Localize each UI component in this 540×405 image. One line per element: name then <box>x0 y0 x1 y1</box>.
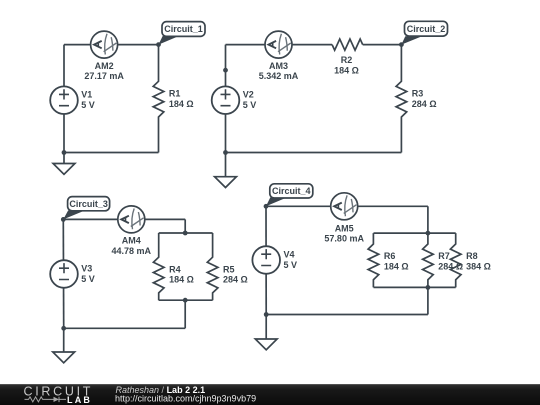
svg-text:44.78 mA: 44.78 mA <box>112 246 152 256</box>
wire C4 top rail <box>374 232 456 234</box>
wire left C4 <box>265 206 267 314</box>
resistor R4 <box>153 233 193 300</box>
svg-text:284 Ω: 284 Ω <box>412 99 437 109</box>
wire C3 right drop <box>184 219 186 233</box>
CircuitLab logo schematic squiggle <box>25 397 67 402</box>
wire bottom C1 <box>64 152 159 154</box>
CircuitLab logo diode <box>54 397 60 402</box>
node dot C3 top-left <box>61 217 66 222</box>
voltage source V2 <box>212 86 257 114</box>
wire C3 bottom drop <box>184 300 186 328</box>
ammeter AM2 <box>84 31 124 81</box>
svg-text:R1: R1 <box>169 88 181 98</box>
node dot C2 left-wire junction <box>223 68 228 73</box>
svg-text:AM5: AM5 <box>335 223 354 233</box>
svg-text:R2: R2 <box>341 55 353 65</box>
node dot C1 top-right <box>156 42 161 47</box>
flag Circuit_3 <box>63 197 109 220</box>
svg-text:184 Ω: 184 Ω <box>169 275 194 285</box>
wire C4 bottom drop <box>427 287 429 314</box>
svg-text:Circuit_3: Circuit_3 <box>69 199 108 209</box>
svg-text:284 Ω: 284 Ω <box>223 275 248 285</box>
node dot C3 bottom-left <box>61 326 66 331</box>
node dot C4 top rail <box>426 231 431 236</box>
svg-text:5 V: 5 V <box>81 100 95 110</box>
svg-text:5 V: 5 V <box>284 260 298 270</box>
flag Circuit_4 <box>266 184 313 207</box>
ground C1 <box>53 153 75 175</box>
resistor R5 <box>207 233 247 300</box>
wire left C3 <box>62 219 64 328</box>
svg-text:384 Ω: 384 Ω <box>466 262 491 272</box>
svg-text:Circuit_1: Circuit_1 <box>164 24 203 34</box>
wire C3 bottom rail <box>159 299 213 301</box>
resistor R7 <box>423 233 463 287</box>
node dot C4 bottom rail <box>426 285 431 290</box>
svg-text:R3: R3 <box>412 88 424 98</box>
svg-text:5.342 mA: 5.342 mA <box>259 71 299 81</box>
svg-text:Circuit_2: Circuit_2 <box>407 24 446 34</box>
svg-text:AM2: AM2 <box>95 61 114 71</box>
svg-text:Circuit_4: Circuit_4 <box>272 186 311 196</box>
wire top C1 <box>64 44 159 46</box>
ammeter AM3 <box>259 31 299 81</box>
node dot C4 bottom-left <box>264 312 269 317</box>
resistor R6 <box>368 233 409 287</box>
svg-text:V4: V4 <box>284 249 295 259</box>
wire left C1 <box>63 45 65 153</box>
voltage source V1 <box>50 86 95 114</box>
svg-text:http://circuitlab.com/cjhn9p3n: http://circuitlab.com/cjhn9p3n9vb79 <box>115 393 256 403</box>
wire C4 right drop <box>427 206 429 233</box>
svg-text:184 Ω: 184 Ω <box>384 262 409 272</box>
svg-text:27.17 mA: 27.17 mA <box>84 71 124 81</box>
svg-text:R7: R7 <box>438 251 450 261</box>
svg-text:V2: V2 <box>243 90 254 100</box>
ammeter AM5 <box>324 193 364 244</box>
svg-text:AM4: AM4 <box>122 236 141 246</box>
node dot C3 bottom rail <box>183 298 188 303</box>
svg-text:V1: V1 <box>81 90 92 100</box>
ground C3 <box>53 328 75 363</box>
node dot C3 top rail <box>183 231 188 236</box>
svg-text:LAB: LAB <box>67 395 92 405</box>
voltage source V4 <box>252 246 297 274</box>
ground C2 <box>215 153 237 188</box>
svg-text:5 V: 5 V <box>243 100 257 110</box>
wire top C2 <box>226 44 402 46</box>
svg-text:57.80 mA: 57.80 mA <box>324 234 364 244</box>
svg-text:R5: R5 <box>223 264 235 274</box>
footer bar background <box>0 384 540 405</box>
node dot C4 top-left <box>264 204 269 209</box>
wire bottom C4 <box>266 314 428 316</box>
resistor R2 <box>332 39 363 75</box>
wire top C3 <box>63 218 185 220</box>
wire top C4 <box>266 205 428 207</box>
wire bottom C2 <box>226 152 402 154</box>
svg-text:5 V: 5 V <box>81 274 95 284</box>
svg-text:184 Ω: 184 Ω <box>169 99 194 109</box>
wire C3 top rail <box>159 232 213 234</box>
ammeter AM4 <box>112 206 152 256</box>
svg-text:V3: V3 <box>81 263 92 273</box>
node dot C1 bottom-left <box>62 150 67 155</box>
svg-text:R8: R8 <box>466 251 478 261</box>
svg-text:184 Ω: 184 Ω <box>334 65 359 75</box>
node dot C2 top-right <box>399 42 404 47</box>
resistor R8 <box>450 233 490 287</box>
ground C4 <box>255 315 277 350</box>
resistor R3 <box>396 45 436 153</box>
wire C4 bottom rail <box>374 286 456 288</box>
wire bottom C3 <box>64 327 186 329</box>
flag Circuit_2 <box>401 21 447 44</box>
wire left C2 <box>225 45 227 153</box>
svg-text:AM3: AM3 <box>269 61 288 71</box>
svg-text:R4: R4 <box>169 264 181 274</box>
svg-text:R6: R6 <box>384 251 396 261</box>
flag Circuit_1 <box>159 22 206 45</box>
node dot C2 bottom-left <box>223 150 228 155</box>
voltage source V3 <box>50 260 95 288</box>
resistor R1 <box>153 45 193 153</box>
